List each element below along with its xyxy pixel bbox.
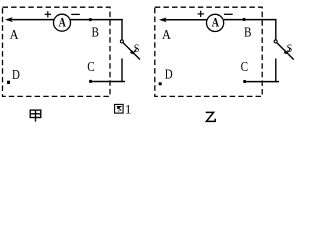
polarity − (ammeter 乙)	[224, 13, 233, 15]
switch S blade (乙)	[277, 43, 294, 60]
wire: switch lower terminal down to node C wire (乙)	[275, 59, 277, 83]
wire: corner down to switch (甲)	[121, 19, 123, 40]
svg-text:1: 1	[125, 103, 131, 117]
polarity + (ammeter 乙)	[198, 11, 204, 17]
svg-text:B: B	[244, 24, 251, 39]
svg-text:D: D	[12, 67, 20, 83]
wire: corner down to switch (乙)	[275, 19, 277, 40]
wire: ammeter to corner (top right, 甲)	[70, 19, 122, 21]
svg-text:C: C	[241, 59, 248, 74]
polarity + (ammeter 甲)	[45, 11, 51, 17]
switch S terminal circle (乙)	[274, 40, 277, 43]
svg-text:B: B	[91, 24, 98, 39]
svg-text:D: D	[165, 66, 173, 82]
node C dot (乙)	[243, 80, 246, 83]
caption 甲 (drawn strokes)	[30, 110, 41, 122]
switch S closing-direction curved arrow (甲)	[132, 49, 136, 53]
wire: node C to lower corner (甲)	[91, 81, 126, 83]
switch S terminal circle (甲)	[120, 40, 123, 43]
node B junction dot (乙)	[243, 18, 246, 21]
svg-text:S: S	[134, 42, 140, 55]
terminal A arrowhead	[6, 18, 12, 22]
dashed enclosure box (circuit 甲)	[3, 7, 111, 96]
terminal D square dot (乙)	[159, 82, 162, 85]
polarity − (ammeter 甲)	[71, 13, 80, 15]
switch S closing-direction curved arrow (乙)	[286, 49, 290, 53]
ammeter A1 circle	[54, 14, 71, 31]
svg-text:S: S	[287, 42, 293, 55]
terminal A arrowhead (乙)	[160, 18, 166, 22]
node C dot (甲)	[89, 80, 92, 83]
terminal D square dot (甲)	[7, 81, 10, 84]
svg-text:C: C	[87, 59, 94, 74]
switch S blade (甲)	[123, 43, 140, 60]
svg-text:A: A	[212, 16, 220, 29]
ammeter A2 circle	[207, 14, 224, 31]
wire: terminal A to ammeter	[7, 19, 54, 21]
svg-text:A: A	[59, 16, 67, 29]
caption 乙 (drawn strokes)	[206, 112, 216, 121]
svg-text:A: A	[162, 26, 171, 42]
dashed enclosure box (circuit 乙)	[155, 7, 262, 96]
wire: node C to lower corner (乙)	[245, 81, 279, 83]
node B junction dot (甲)	[89, 18, 92, 21]
wire: ammeter to corner (top right, 乙)	[224, 19, 277, 21]
wire: terminal A to ammeter (乙)	[161, 19, 207, 21]
wire: switch lower terminal down to node C wire (甲)	[121, 58, 123, 82]
caption 图 of 图1 (drawn strokes)	[115, 104, 124, 113]
svg-text:A: A	[10, 26, 19, 42]
